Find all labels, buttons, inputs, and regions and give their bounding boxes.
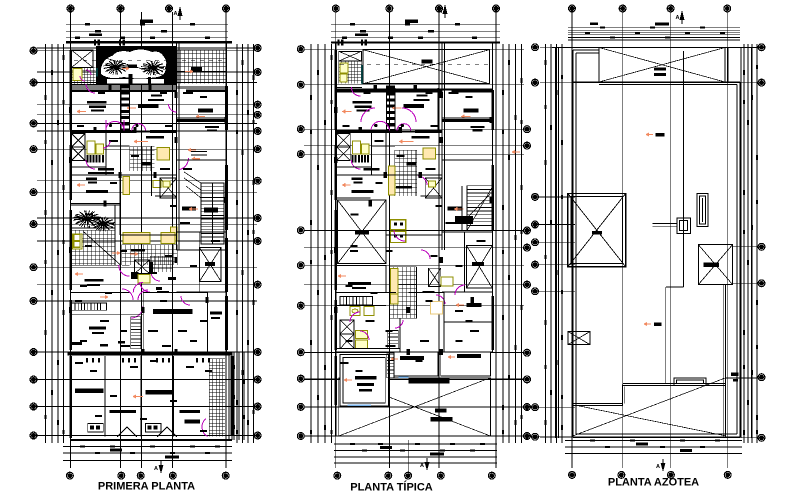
svg-text:A: A (656, 464, 660, 470)
svg-text:PLANTA TÍPICA: PLANTA TÍPICA (350, 481, 433, 494)
svg-text:A: A (439, 9, 443, 15)
svg-text:A: A (174, 11, 178, 17)
svg-text:A: A (420, 463, 424, 469)
svg-text:A: A (154, 466, 158, 472)
svg-text:PLANTA AZOTEA: PLANTA AZOTEA (608, 477, 699, 489)
svg-text:PRIMERA PLANTA: PRIMERA PLANTA (98, 480, 195, 492)
svg-text:A: A (676, 15, 680, 21)
